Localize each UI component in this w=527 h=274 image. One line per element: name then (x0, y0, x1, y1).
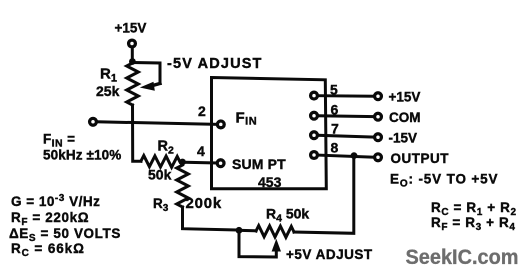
pin 5 circle inside (311, 92, 318, 99)
wire pin 6 (318, 114, 374, 118)
pin 7 external terminal (375, 134, 382, 141)
wire FIN terminal to pin 2 (97, 122, 217, 125)
svg-text:200k: 200k (186, 195, 223, 212)
R1 wiper arrowhead (152, 84, 160, 86)
wire node C to R4 (242, 229, 257, 232)
junction node C (236, 227, 243, 234)
svg-text:50k: 50k (148, 167, 172, 183)
junction node D on output line (351, 152, 358, 159)
svg-text:5: 5 (330, 82, 338, 98)
svg-text:453: 453 (258, 174, 282, 190)
svg-text:+15V: +15V (115, 21, 147, 36)
svg-text:2: 2 (198, 103, 206, 119)
svg-text:7: 7 (331, 121, 339, 137)
svg-text:8: 8 (331, 140, 339, 156)
junction node B (sum point) (179, 159, 186, 166)
svg-text:+5V ADJUST: +5V ADJUST (286, 247, 373, 262)
pin 2 circle (217, 121, 224, 128)
svg-text:50kHz ±10%: 50kHz ±10% (43, 148, 121, 163)
pin 6 circle inside (311, 112, 318, 119)
wire R1 bottom through FIN line down to R2 (133, 105, 142, 161)
pin 7 circle inside (311, 132, 318, 139)
wire node B to pin 4 (185, 161, 216, 165)
wire pin 7 (318, 135, 374, 137)
R4 wiper arrowhead (272, 239, 281, 252)
wire R4 right to output node riser (294, 158, 354, 233)
svg-text:25k: 25k (96, 83, 120, 99)
svg-text:SeekIC.com: SeekIC.com (406, 246, 519, 269)
svg-text:OUTPUT: OUTPUT (391, 151, 450, 166)
+15V terminal (129, 40, 136, 47)
svg-text:-5V ADJUST: -5V ADJUST (167, 56, 263, 72)
R4 wiper arm wire (239, 232, 276, 257)
junction node A (129, 58, 136, 65)
svg-text:COM: COM (389, 110, 421, 125)
svg-text:-15V: -15V (389, 131, 418, 146)
pin 6 external terminal (375, 113, 382, 120)
potentiometer R1 25k element (127, 63, 139, 105)
pin 4 circle (217, 160, 224, 167)
pin 5 external terminal (375, 93, 382, 100)
svg-text:4: 4 (197, 143, 205, 159)
wire pin 8 (318, 155, 374, 157)
pin 8 circle inside (311, 152, 318, 159)
resistor R2 50k element (141, 156, 180, 168)
svg-text:SUM PT: SUM PT (232, 156, 286, 172)
wire R3 bottom to node C (183, 207, 237, 230)
FIN input terminal (90, 118, 97, 125)
svg-text:6: 6 (331, 102, 339, 118)
wire +15V terminal to node A (131, 48, 134, 60)
pin 8 external terminal (375, 154, 382, 161)
potentiometer R4 50k element (256, 226, 294, 238)
resistor R3 200k element (177, 165, 189, 207)
svg-text:+15V: +15V (389, 90, 421, 105)
module U1 453 body (212, 78, 327, 189)
wire pin 5 (318, 94, 374, 98)
R1 wiper arm wire (134, 63, 161, 84)
